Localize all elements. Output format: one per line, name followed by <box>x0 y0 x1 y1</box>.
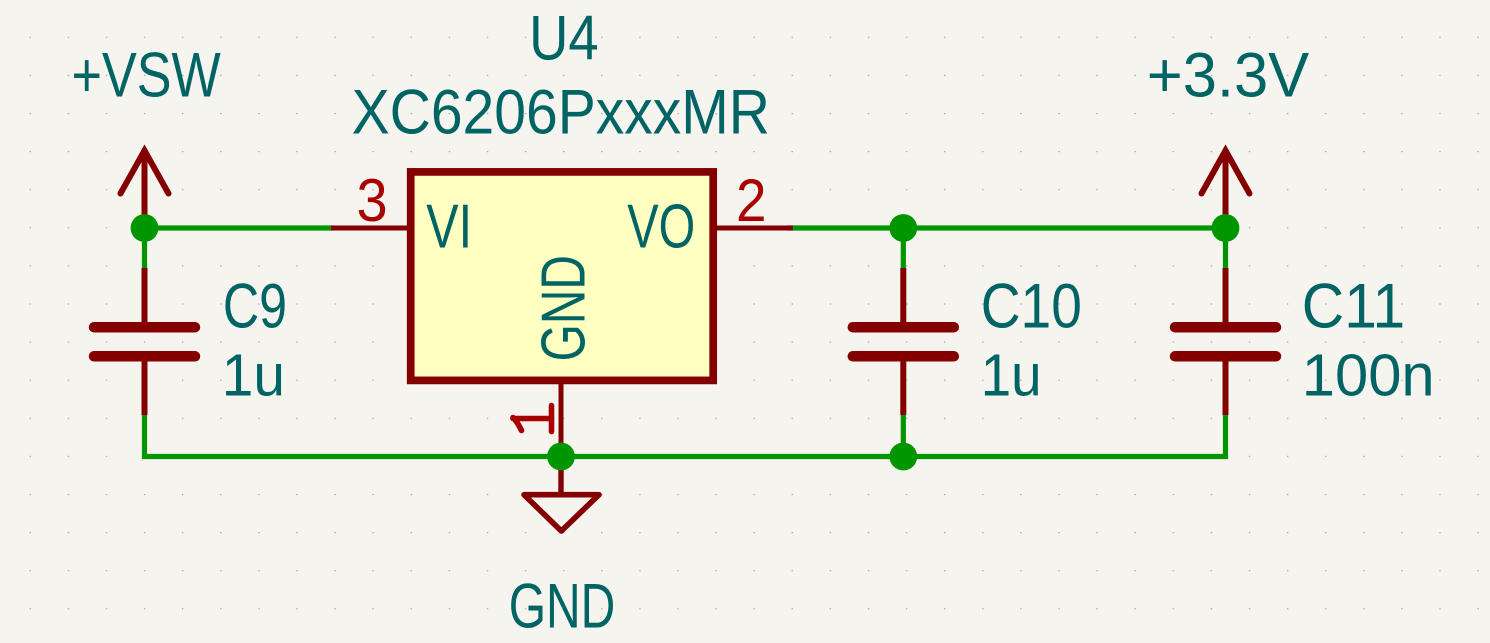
svg-text:1u: 1u <box>222 342 285 408</box>
wire pin 2 to +3.3V node <box>787 225 1226 230</box>
capacitor C9 <box>94 268 195 415</box>
svg-text:C9: C9 <box>223 272 287 342</box>
junction GND node <box>547 443 575 471</box>
svg-text:1u: 1u <box>981 342 1042 408</box>
svg-text:2: 2 <box>736 167 767 234</box>
svg-text:VI: VI <box>426 193 472 262</box>
svg-text:+3.3V: +3.3V <box>1147 40 1309 110</box>
svg-text:C11: C11 <box>1302 272 1405 342</box>
svg-text:3: 3 <box>357 167 388 234</box>
svg-text:XC6206PxxxMR: XC6206PxxxMR <box>352 78 770 148</box>
ground symbol <box>524 457 599 532</box>
wire C10 top stub <box>901 228 906 268</box>
pin 2 of U4 <box>717 226 793 231</box>
wire C10 bottom stub <box>901 415 906 457</box>
power symbol +3.3V <box>1202 151 1250 229</box>
junction C10 top <box>889 214 917 242</box>
capacitor C10 <box>853 268 954 415</box>
svg-text:U4: U4 <box>529 3 599 73</box>
svg-text:GND: GND <box>509 571 616 641</box>
IC U4 body <box>411 172 714 381</box>
pin 3 of U4 <box>331 226 407 231</box>
wire bottom rail <box>145 415 1226 457</box>
power symbol +VSW <box>121 151 169 229</box>
capacitor C11 <box>1175 268 1276 415</box>
junction at +3.3V node <box>1212 214 1240 242</box>
svg-text:+VSW: +VSW <box>72 41 222 111</box>
svg-text:VO: VO <box>627 193 695 262</box>
svg-text:GND: GND <box>529 255 598 361</box>
junction at +VSW node <box>131 214 159 242</box>
junction C10 bottom <box>889 443 917 471</box>
wire C9 top stub <box>142 228 147 268</box>
wire C11 top stub <box>1223 228 1228 268</box>
wire +VSW node to pin 3 <box>145 225 335 230</box>
pin 1 of U4 <box>559 384 564 457</box>
pin number 1 (rotated digit with base serif) <box>513 406 552 432</box>
svg-text:C10: C10 <box>981 272 1082 342</box>
svg-text:100n: 100n <box>1302 342 1435 408</box>
